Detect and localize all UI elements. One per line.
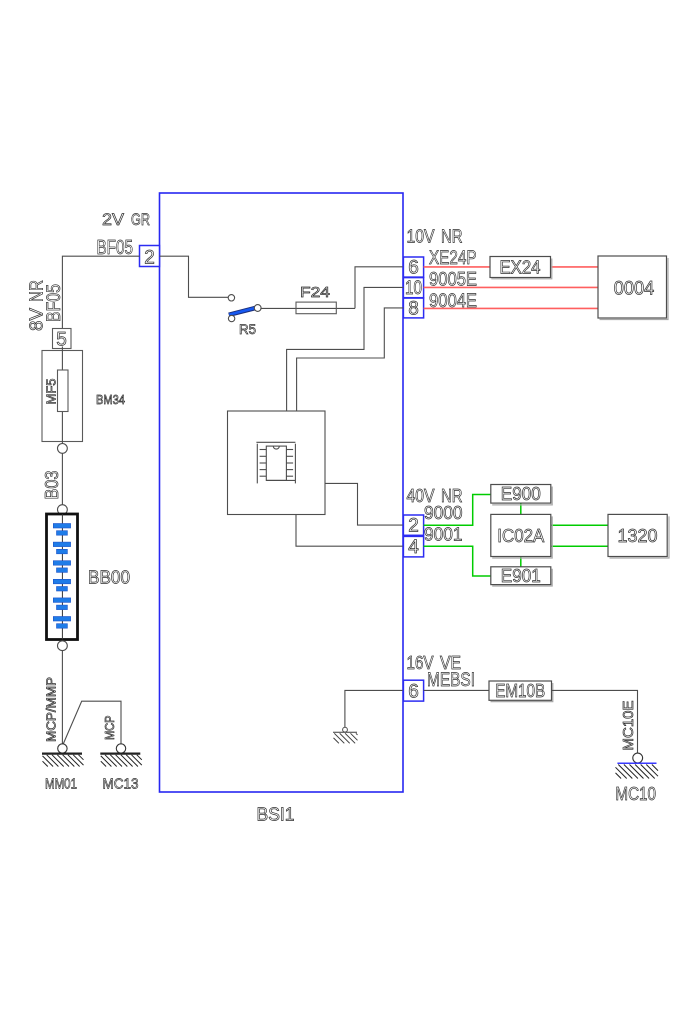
wire pin 6 internal to ground <box>345 690 404 727</box>
svg-text:EX24: EX24 <box>500 258 541 278</box>
wire F24 to pin 6 <box>355 267 403 309</box>
wire E900 to IC02A (green) <box>520 503 522 514</box>
svg-text:8: 8 <box>408 299 419 320</box>
wire pin 10 internal <box>287 287 404 411</box>
connector pin 2 (9000) <box>403 515 423 537</box>
connector EM10B <box>489 681 553 702</box>
connector E901 <box>491 566 552 586</box>
svg-text:F24: F24 <box>300 284 330 301</box>
ECU 1320 <box>608 514 669 558</box>
ground MC13 <box>100 754 142 767</box>
ground internal BSI1 <box>333 732 358 743</box>
wire BM34 to BB00 <box>61 453 63 504</box>
connector pin 10 (9005E) <box>403 278 423 299</box>
svg-text:6: 6 <box>408 258 419 279</box>
IC U1 body <box>266 446 286 480</box>
wire processor to pin 4 internal <box>296 515 403 547</box>
IC U1 socket <box>256 441 295 443</box>
fuse BM34 (MF5) <box>42 347 83 444</box>
ground terminal circle MC13 <box>116 744 125 753</box>
svg-text:XE24P: XE24P <box>429 248 477 269</box>
svg-text:MCP/MMP: MCP/MMP <box>45 677 59 742</box>
svg-text:9001: 9001 <box>424 525 463 545</box>
IC U1 pins right <box>286 449 293 451</box>
svg-text:BB00: BB00 <box>88 568 130 588</box>
svg-text:IC02A: IC02A <box>497 526 544 546</box>
svg-text:E901: E901 <box>501 566 541 586</box>
wire IC02A to 1320 lower (green) <box>551 545 608 547</box>
svg-text:BSI1: BSI1 <box>257 805 295 825</box>
svg-text:10: 10 <box>405 278 422 299</box>
connector pin 5 (BM34) <box>53 329 72 351</box>
IC U1 pins left <box>260 449 267 451</box>
wire pin2 to left <box>62 256 139 333</box>
svg-text:9000: 9000 <box>424 503 463 523</box>
connector EX24 <box>490 257 552 279</box>
connector pin 6 (MEBSI) <box>403 680 423 702</box>
wire EX24 to 0004 (red) <box>551 266 599 268</box>
wire pin 10 to 0004 (red) <box>424 286 598 288</box>
junction circle below BB00 <box>58 641 68 651</box>
junction circle above BB00 <box>58 505 68 515</box>
wire MM01 to MC13 <box>63 701 121 744</box>
wire pin 4 to E901 (green) <box>424 546 491 576</box>
wire BB00 to MM01 <box>61 651 63 744</box>
svg-text:MC10: MC10 <box>615 784 656 804</box>
svg-text:B03: B03 <box>42 471 62 500</box>
junction circle below BM34 <box>58 444 68 454</box>
battery BB00 <box>47 514 78 640</box>
connector pin 6 (XE24P) <box>403 257 423 279</box>
connector pin 2 (BF05) <box>140 246 160 269</box>
wire pin 6 to EM10B <box>424 689 489 691</box>
svg-text:6: 6 <box>408 682 419 703</box>
svg-text:5: 5 <box>56 330 67 351</box>
ground terminal circle MM01 <box>58 744 67 753</box>
wire R5 to F24 <box>260 307 296 309</box>
wire processor to pin 2 internal <box>325 483 403 525</box>
svg-text:4: 4 <box>408 537 419 558</box>
ECU box BSI1 <box>160 193 404 825</box>
svg-text:MC13: MC13 <box>103 776 139 793</box>
ECU IC02A <box>491 514 552 558</box>
svg-text:MM01: MM01 <box>45 776 77 793</box>
wire pin 8 internal <box>297 308 404 411</box>
ground MC10 <box>616 763 659 778</box>
wire pin 2 to E900 (green) <box>424 495 491 526</box>
svg-text:BM34: BM34 <box>96 392 125 407</box>
ECU 0004 <box>598 256 668 320</box>
processor block inside BSI1 <box>228 411 326 515</box>
svg-text:MCP: MCP <box>103 716 117 741</box>
svg-text:2: 2 <box>408 516 419 537</box>
ground terminal circle internal <box>343 727 348 732</box>
wire EM10B to MC10 <box>552 690 638 753</box>
svg-text:MF5: MF5 <box>44 379 59 405</box>
svg-text:R5: R5 <box>239 321 256 337</box>
svg-text:E900: E900 <box>501 484 541 504</box>
svg-text:2: 2 <box>144 248 155 269</box>
connector E900 <box>491 484 552 505</box>
svg-text:MEBSI: MEBSI <box>427 670 475 691</box>
wire pin 8 to 0004 (red) <box>424 307 598 309</box>
wire pin2 to switch R5 <box>160 256 229 297</box>
svg-text:0004: 0004 <box>614 279 655 300</box>
switch R5 <box>228 295 261 337</box>
ground MM01 <box>42 754 84 767</box>
svg-text:BF05: BF05 <box>44 284 65 322</box>
svg-text:MC10E: MC10E <box>620 701 637 751</box>
wire IC02A to E901 (green) <box>520 557 522 567</box>
connector pin 4 (9001) <box>403 536 423 558</box>
connector pin 8 (9004E) <box>403 298 423 319</box>
wire IC02A to 1320 upper (green) <box>551 524 608 526</box>
svg-text:EM10B: EM10B <box>495 681 545 701</box>
wire pin 6 to EX24 (red) <box>424 266 490 268</box>
fuse F24 <box>296 284 355 314</box>
ground terminal circle MC10 <box>633 753 643 763</box>
svg-text:1320: 1320 <box>618 526 658 546</box>
